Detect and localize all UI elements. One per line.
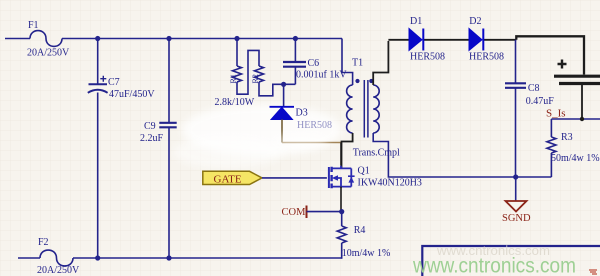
svg-text:0.001uf 1kV: 0.001uf 1kV (296, 70, 347, 81)
svg-text:20A/250V: 20A/250V (37, 265, 80, 276)
svg-text:D3: D3 (296, 108, 308, 119)
node source / COM / R4 (339, 209, 344, 214)
transistor Q1 (329, 166, 355, 189)
wire R1 top tail (236, 39, 238, 67)
node top rail / C7 (95, 36, 100, 41)
wire R4 top tail (341, 212, 343, 226)
wire top-right loop (516, 36, 584, 74)
wire secondary bottom rail (373, 133, 551, 177)
node top rail / C6 (293, 36, 298, 41)
wire C8 branch top (515, 40, 517, 83)
wire COM to source node (307, 211, 342, 213)
wire R2 bottom jog (259, 82, 295, 96)
capacitor C8 (505, 83, 526, 88)
svg-text:C9: C9 (144, 121, 156, 132)
capacitor C6 (283, 62, 306, 67)
svg-text:C8: C8 (528, 83, 540, 94)
svg-text:R2: R2 (251, 74, 260, 83)
wire top-left stub (5, 38, 30, 40)
wire T1 primary bottom lead (342, 133, 353, 168)
polarity dot primary (355, 79, 359, 83)
capacitor C7 (89, 83, 108, 85)
diode D1 (409, 29, 423, 51)
wire D3 to drain (olive) (281, 120, 283, 143)
wire R3 bottom tail (550, 153, 552, 177)
svg-text:COM: COM (282, 207, 307, 218)
svg-text:HER508: HER508 (410, 52, 445, 63)
svg-text:www.cntronics.com: www.cntronics.com (412, 255, 576, 276)
fuse F1 (30, 31, 62, 47)
wire R3 top tail (550, 119, 552, 137)
svg-text:C7: C7 (108, 77, 120, 88)
polarity dot secondary (369, 79, 373, 83)
wire top rail (62, 38, 342, 40)
svg-text:R3: R3 (561, 132, 573, 143)
wire secondary to D1 (388, 39, 409, 41)
svg-text:0.47uF: 0.47uF (526, 96, 555, 107)
node top rail / C9 (166, 36, 171, 41)
wire bottom-left stub (18, 257, 40, 259)
svg-text:F2: F2 (38, 237, 49, 248)
svg-text:Trans.Cmpl: Trans.Cmpl (353, 148, 400, 159)
node bottom rail / C7 (95, 255, 100, 260)
svg-text:SGND: SGND (502, 213, 531, 224)
sheet border corner (422, 246, 600, 276)
svg-text:GATE: GATE (214, 174, 242, 186)
svg-text:T1: T1 (352, 58, 363, 69)
svg-text:IKW40N120H3: IKW40N120H3 (358, 178, 422, 189)
wire D2 to C8 node (484, 39, 516, 41)
wire C7 branch bottom (97, 93, 99, 259)
svg-text:F1: F1 (28, 20, 39, 31)
svg-text:20A/250V: 20A/250V (27, 48, 70, 59)
diode D3 (270, 107, 295, 120)
port GATE (203, 171, 262, 184)
wire D1 to D2 (424, 39, 469, 41)
plus sign output cap (558, 60, 567, 69)
transformer T1 secondary winding (373, 85, 379, 133)
wire C9 branch top (168, 39, 170, 123)
svg-text:D2: D2 (469, 16, 481, 27)
wire Q1 drain up (340, 143, 342, 166)
svg-text:10m/4w 1%: 10m/4w 1% (342, 248, 391, 259)
node snubber / D3 (281, 82, 286, 87)
resistor R3 (547, 137, 556, 153)
capacitor output bottom plate (559, 82, 600, 85)
svg-text:R1: R1 (229, 74, 238, 83)
wire GATE to Q1 (262, 177, 327, 179)
capacitor C9 (159, 123, 176, 128)
wire R1 bottom to R2 top (237, 50, 259, 94)
wire Q1 source down (340, 187, 342, 212)
fuse F2 (40, 250, 73, 266)
node cap leg / S_Is wire (580, 117, 584, 121)
diode D2 (469, 29, 483, 51)
wire C8 bottom (515, 88, 517, 177)
wire D3 top (283, 84, 285, 106)
wire T1 secondary top lead (373, 41, 388, 85)
transformer T1 core (364, 80, 368, 138)
node top rail / R1 (234, 36, 239, 41)
port COM tick (306, 206, 308, 219)
transformer T1 primary winding (347, 85, 353, 133)
wire C9 branch bottom (168, 127, 170, 258)
svg-text:2.8k/10W: 2.8k/10W (215, 97, 255, 108)
wire C6 branch top (294, 39, 296, 63)
wire bottom rail (73, 257, 341, 259)
wire R4 bottom tail (341, 243, 343, 259)
node bottom rail / C9 (166, 255, 171, 260)
svg-text:HER508: HER508 (469, 52, 504, 63)
svg-text:R4: R4 (354, 225, 366, 236)
wire C7 branch top (97, 39, 99, 85)
wire SGND drop (515, 177, 517, 201)
svg-text:47uF/450V: 47uF/450V (109, 89, 155, 100)
svg-text:S_Is: S_Is (546, 108, 566, 120)
svg-text:D1: D1 (410, 16, 422, 27)
capacitor output top plate (554, 75, 600, 78)
svg-text:HER508: HER508 (297, 120, 332, 131)
resistor R4 (337, 226, 346, 243)
svg-text:Q1: Q1 (358, 166, 370, 177)
white watermark blob (182, 104, 342, 156)
wire output cap bottom leg (581, 85, 583, 119)
svg-text:50m/4w 1%: 50m/4w 1% (551, 153, 600, 164)
wire S_Is horizontal (551, 118, 600, 120)
svg-text:2.2uF: 2.2uF (140, 133, 164, 144)
wire C6 bottom (294, 67, 296, 85)
wire T1 primary top lead (342, 39, 353, 86)
svg-text:C6: C6 (308, 58, 320, 69)
resistor R2 (255, 66, 264, 82)
ground SGND (506, 201, 527, 212)
node SGND (513, 174, 518, 179)
red mark bottom right (589, 270, 597, 274)
resistor R1 (233, 66, 242, 82)
